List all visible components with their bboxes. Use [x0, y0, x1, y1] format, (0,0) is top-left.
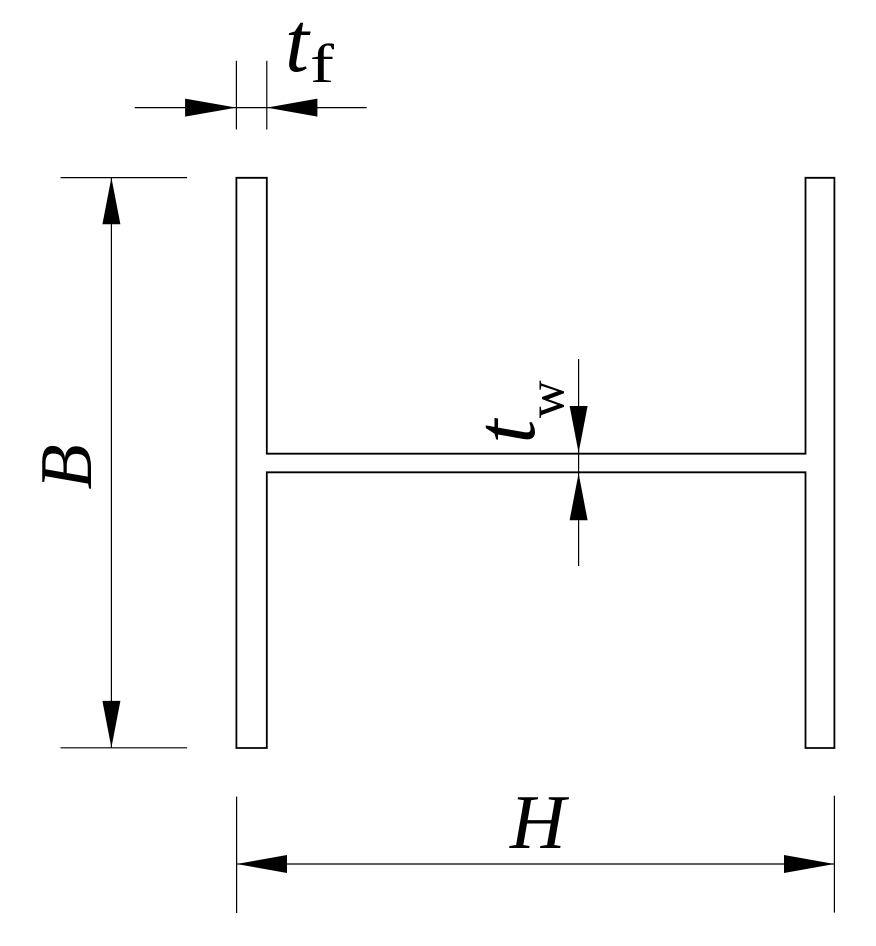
dimension B extension line top [61, 177, 188, 179]
svg-text:B: B [26, 444, 108, 489]
dimension t_f extension line right [266, 61, 268, 130]
dimension t_w line [578, 359, 580, 566]
dimension t_f arrow right [267, 99, 318, 117]
svg-text:H: H [509, 779, 570, 865]
dimension H line [237, 863, 835, 865]
svg-text:f: f [310, 33, 335, 94]
dimension H extension line left [236, 797, 238, 914]
dimension t_w arrow bottom [570, 473, 588, 520]
dimension B line [110, 178, 112, 748]
dimension t_f extension line left [235, 61, 237, 130]
dimension B arrow bottom [102, 701, 120, 748]
dimension H arrow right [784, 855, 834, 873]
dimension H extension line right [833, 796, 835, 913]
dimension t_f line [135, 107, 367, 109]
svg-text:t: t [285, 0, 311, 90]
H-beam section outline [236, 178, 834, 748]
svg-text:w: w [519, 380, 576, 418]
dimension t_f arrow left [185, 99, 236, 117]
dimension B arrow top [102, 178, 120, 225]
svg-text:t: t [457, 418, 553, 444]
dimension B extension line bottom [61, 747, 188, 749]
dimension t_w arrow top [570, 406, 588, 453]
dimension H arrow left [237, 855, 287, 873]
